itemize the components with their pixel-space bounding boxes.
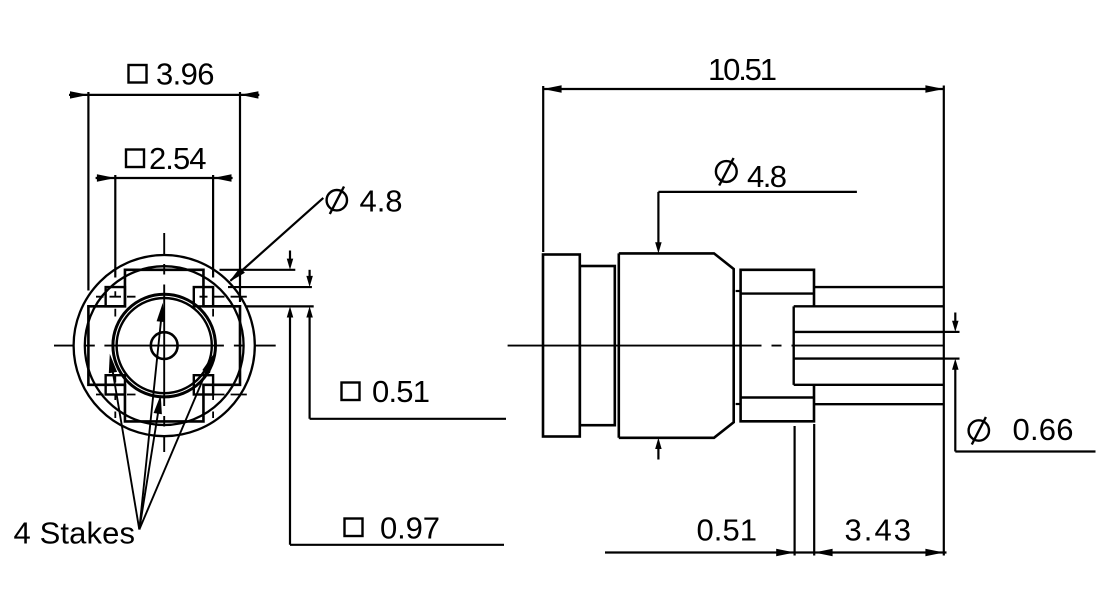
diameter 0.66 lower arrow and leader [952,359,959,452]
dimension 10.51 left arrow [543,85,561,92]
top stake leg top edge [814,286,944,288]
SIDE VIEW [508,52,1096,556]
diameter 0.66 symbol [969,417,989,445]
dimension 2.54 line [96,177,233,179]
center contact hole [151,332,178,359]
4 Stakes leader to bottom stake [139,395,162,530]
svg-text:0.97: 0.97 [380,511,440,546]
horizontal centerline [54,345,276,347]
stake bottom edge extension line right [245,305,314,307]
svg-text:4.8: 4.8 [360,184,403,219]
diameter 4.8 side bottom arrow [655,438,662,460]
body block C left edge [617,253,620,437]
blades left edge [793,306,795,385]
svg-text:10.51: 10.51 [708,52,777,87]
dim 0.97 upper arrow [287,251,294,270]
bottom dimension line [605,551,947,553]
outer conductor ring inner [117,298,212,393]
diameter 0.66 upper arrow [952,313,959,332]
pin centerline vertical top-right [212,291,214,316]
pin bottom tick right [944,358,960,360]
svg-text:3.96: 3.96 [156,57,215,92]
dimension 3.96 left arrow [70,91,88,98]
bottom stake leg bottom edge [814,403,944,405]
flange block D inner line lower [741,396,814,398]
pin centerline vertical top-left [114,291,116,316]
outer body circle Ø4.8 [74,255,255,436]
vertical centerline [163,233,165,452]
diameter 4.8 leader arrowhead [229,267,245,282]
outer conductor ring outer [113,294,216,397]
dimension 2.54 left extension [114,175,116,278]
dimension 3.96 square symbol [129,65,147,83]
svg-text:0.66: 0.66 [1013,412,1074,447]
4 Stakes leader to right stake [139,354,213,529]
dimension 2.54 left arrow [97,174,115,181]
dim 3.43 right arrow [925,549,943,556]
dim 0.97 underline [290,544,504,546]
svg-text:4 Stakes: 4 Stakes [14,516,136,551]
FRONT VIEW [14,57,507,551]
pin centerline horizontal top-right [200,296,247,298]
dim 3.43 left extension [813,424,815,556]
stake leg square top-left [106,287,125,306]
dimension 3.96 right arrow [240,91,258,98]
diameter 4.8 symbol [327,187,347,215]
top stake leg bottom / blade top edge [794,305,944,307]
svg-text:0.51: 0.51 [697,513,758,548]
dim 0.51 upper arrow [306,270,313,287]
pin centerline vertical bottom-right [212,376,214,419]
flange top edge extension line right [220,269,296,271]
neck shoulder tick upper [736,290,741,292]
diameter 4.8 side leader vertical [657,192,659,243]
stake leg square bottom-right [194,375,213,394]
dim 0.97 square symbol [345,519,363,537]
pin bottom / blade top edge lower [794,357,944,359]
lower blade bottom / bottom leg top edge [794,384,944,386]
dim 0.97 lower arrow [287,306,294,317]
flange block D inner line upper [741,292,814,294]
dim 0.51 bottom left extension [793,426,795,556]
dim 0.51 square symbol [342,383,360,401]
svg-text:3.43: 3.43 [845,513,912,548]
diameter 0.66 underline [955,450,1095,452]
svg-text:4.8: 4.8 [747,159,787,194]
dimension 3.96 right extension [239,92,241,302]
stake leg square top-right [194,287,213,306]
main horizontal centerline [508,345,943,347]
diameter 4.8 side top arrow [655,242,662,253]
dimension 10.51 line [543,88,944,90]
pin centerline horizontal bottom-left [96,394,136,396]
svg-text:0.51: 0.51 [372,374,430,409]
svg-text:2.54: 2.54 [149,141,207,176]
dimension 10.51 left extension [542,86,544,252]
pin centerline horizontal bottom-right [200,394,247,396]
pin top tick right [944,331,960,333]
body block C outline with chamfers [619,253,734,437]
blade bottom / pin top edge [794,331,944,333]
flange block D outline [741,270,814,422]
dim 0.51 leader vertical [309,317,311,419]
dimension 2.54 square symbol [126,150,144,168]
dim 0.51 bottom left arrow [776,549,794,556]
stake leg square bottom-left [106,375,125,394]
neck shoulder tick lower [736,403,741,405]
pin centerline vertical bottom-left [114,376,116,419]
inner body circle (rear shell) [85,266,244,425]
dimension 2.54 right arrow [213,174,231,181]
right end cap and extension line [943,86,945,556]
stake top edge extension line right [228,286,312,288]
dimension 3.96 line [69,94,259,96]
dim 0.97 leader vertical [289,317,291,545]
diameter 4.8 side symbol [716,158,737,186]
4 Stakes leader to left stake [109,354,140,530]
dimension 2.54 right extension [212,175,214,278]
dim 0.51 underline [310,418,506,420]
flange square outline with staked corner notches [88,270,240,422]
dim 0.51 lower arrow [306,306,313,317]
dimension 10.51 right arrow [925,85,943,92]
dimension 3.96 left extension [87,92,89,291]
ring groove block B [580,266,615,425]
pin centerline horizontal top-left [96,296,136,298]
diameter 4.8 callout leader [231,198,324,281]
dim 0.51 bottom right arrow / 3.43 left arrow [814,549,832,556]
diameter 4.8 side callout underline [658,191,857,193]
4 Stakes leader to top stake [139,303,165,530]
front interface ring block A [543,255,580,437]
